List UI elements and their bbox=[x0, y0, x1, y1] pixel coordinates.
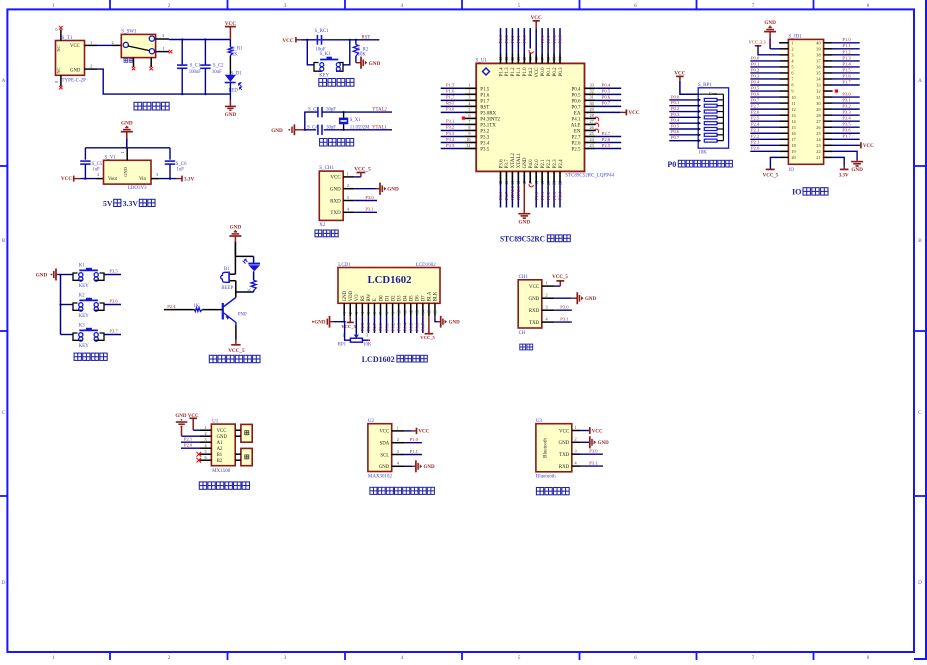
svg-text:S_CH1: S_CH1 bbox=[319, 166, 334, 171]
svg-text:P3.3: P3.3 bbox=[446, 131, 455, 136]
svg-text:VO: VO bbox=[355, 294, 360, 301]
svg-text:9: 9 bbox=[791, 89, 793, 94]
svg-text:GND: GND bbox=[424, 465, 436, 470]
svg-text:P0.2: P0.2 bbox=[751, 67, 760, 72]
svg-text:GND: GND bbox=[519, 219, 531, 225]
svg-text:YTAL2: YTAL2 bbox=[372, 107, 387, 112]
svg-text:P3.7: P3.7 bbox=[504, 191, 509, 200]
svg-text:P3.1TX: P3.1TX bbox=[480, 123, 496, 128]
svg-text:P1.7: P1.7 bbox=[480, 99, 490, 104]
svg-text:1: 1 bbox=[546, 281, 548, 286]
svg-text:13: 13 bbox=[791, 113, 795, 118]
svg-text:D4: D4 bbox=[404, 295, 409, 301]
svg-text:3: 3 bbox=[397, 449, 399, 454]
svg-text:GND: GND bbox=[314, 321, 326, 326]
svg-text:2: 2 bbox=[205, 431, 207, 436]
svg-text:S_SW1: S_SW1 bbox=[121, 30, 137, 35]
svg-text:30pF: 30pF bbox=[326, 125, 336, 130]
svg-text:EA: EA bbox=[574, 111, 581, 116]
svg-text:VCC: VCC bbox=[330, 176, 341, 181]
svg-text:15: 15 bbox=[791, 125, 795, 130]
svg-text:1: 1 bbox=[52, 3, 55, 9]
svg-text:1: 1 bbox=[343, 333, 345, 337]
svg-text:3.3V: 3.3V bbox=[839, 174, 849, 179]
svg-text:P3.1: P3.1 bbox=[446, 119, 455, 124]
svg-text:P3.4: P3.4 bbox=[480, 141, 490, 146]
svg-text:P1.2: P1.2 bbox=[510, 34, 515, 43]
svg-text:S_V1: S_V1 bbox=[105, 155, 117, 160]
svg-text:P2.4: P2.4 bbox=[558, 191, 563, 200]
svg-text:RST: RST bbox=[446, 101, 455, 106]
svg-text:P1.1: P1.1 bbox=[842, 43, 851, 48]
svg-text:BLK: BLK bbox=[434, 291, 439, 301]
svg-text:VDD: VDD bbox=[349, 290, 354, 301]
svg-text:P2.7: P2.7 bbox=[751, 104, 760, 109]
svg-text:D: D bbox=[2, 580, 6, 586]
svg-text:1K: 1K bbox=[232, 53, 238, 58]
svg-text:P2.5: P2.5 bbox=[602, 143, 611, 148]
svg-text:P2.5: P2.5 bbox=[751, 116, 760, 121]
svg-text:NC: NC bbox=[56, 67, 61, 73]
svg-text:25: 25 bbox=[816, 131, 820, 136]
svg-text:10K: 10K bbox=[363, 342, 372, 347]
svg-text:P4.1: P4.1 bbox=[571, 117, 581, 122]
svg-text:P3.0: P3.0 bbox=[842, 91, 851, 96]
svg-text:P3.0RX: P3.0RX bbox=[480, 111, 496, 116]
svg-text:P3.1: P3.1 bbox=[560, 317, 569, 322]
svg-text:1: 1 bbox=[52, 655, 55, 660]
svg-text:P2.4: P2.4 bbox=[559, 159, 564, 169]
svg-text:P2.1: P2.1 bbox=[184, 437, 193, 442]
svg-text:P1.1: P1.1 bbox=[517, 67, 522, 77]
svg-text:GND: GND bbox=[585, 297, 597, 302]
svg-text:10: 10 bbox=[396, 310, 401, 314]
svg-text:P3.2: P3.2 bbox=[842, 104, 851, 109]
svg-text:7: 7 bbox=[752, 3, 755, 9]
svg-text:5: 5 bbox=[366, 312, 371, 314]
svg-text:5: 5 bbox=[791, 65, 793, 70]
svg-text:1: 1 bbox=[791, 41, 793, 46]
svg-text:S_D1: S_D1 bbox=[231, 71, 243, 76]
svg-text:TXD: TXD bbox=[529, 321, 540, 326]
svg-text:GND: GND bbox=[70, 68, 81, 73]
svg-text:27: 27 bbox=[590, 119, 594, 124]
svg-text:ALE: ALE bbox=[571, 123, 581, 128]
svg-text:LCD1602: LCD1602 bbox=[416, 263, 437, 268]
svg-text:VCC: VCC bbox=[529, 285, 540, 290]
svg-text:P0.6: P0.6 bbox=[571, 99, 581, 104]
svg-text:P1.3: P1.3 bbox=[505, 67, 510, 77]
svg-text:LCD1602: LCD1602 bbox=[362, 354, 395, 364]
svg-text:22: 22 bbox=[816, 149, 820, 154]
svg-text:8: 8 bbox=[791, 83, 793, 88]
svg-text:3: 3 bbox=[575, 449, 577, 454]
svg-text:7: 7 bbox=[752, 655, 755, 660]
svg-text:A: A bbox=[2, 78, 6, 84]
svg-text:25: 25 bbox=[590, 131, 594, 136]
svg-text:K1: K1 bbox=[79, 263, 85, 268]
svg-text:P1.0: P1.0 bbox=[522, 34, 527, 43]
svg-text:35: 35 bbox=[816, 71, 820, 76]
svg-text:0: 0 bbox=[54, 81, 59, 83]
svg-text:BLA: BLA bbox=[428, 291, 433, 301]
svg-text:3: 3 bbox=[162, 33, 164, 38]
svg-text:P2.4: P2.4 bbox=[751, 122, 760, 127]
svg-text:5: 5 bbox=[205, 449, 207, 454]
svg-text:P1.5: P1.5 bbox=[842, 67, 851, 72]
svg-text:1: 1 bbox=[347, 171, 349, 176]
svg-text:1: 1 bbox=[205, 425, 207, 430]
svg-text:P1.1: P1.1 bbox=[516, 34, 521, 43]
svg-text:D6: D6 bbox=[416, 295, 421, 301]
svg-text:20: 20 bbox=[791, 155, 795, 160]
svg-text:KEY: KEY bbox=[319, 74, 329, 79]
svg-text:P0.3: P0.3 bbox=[671, 112, 680, 117]
svg-text:IO: IO bbox=[792, 187, 802, 196]
svg-text:GND: GND bbox=[369, 61, 381, 67]
svg-text:2: 2 bbox=[575, 437, 577, 442]
svg-text:P0.6: P0.6 bbox=[602, 95, 611, 100]
svg-text:P1.1: P1.1 bbox=[410, 449, 419, 454]
svg-text:RW: RW bbox=[367, 293, 372, 301]
svg-text:STC89C52RC: STC89C52RC bbox=[500, 234, 545, 244]
svg-text:P0.1: P0.1 bbox=[751, 61, 760, 66]
svg-text:VCC: VCC bbox=[379, 430, 389, 435]
svg-text:VCC: VCC bbox=[535, 67, 540, 78]
svg-text:3: 3 bbox=[284, 655, 287, 660]
svg-text:3.3V: 3.3V bbox=[123, 199, 139, 208]
svg-text:C: C bbox=[2, 410, 6, 416]
svg-text:2: 2 bbox=[397, 437, 399, 442]
svg-text:8: 8 bbox=[867, 3, 870, 9]
svg-text:6: 6 bbox=[634, 3, 637, 9]
svg-text:GND: GND bbox=[764, 20, 776, 26]
svg-text:Vout: Vout bbox=[108, 177, 118, 182]
svg-text:P3.6: P3.6 bbox=[498, 191, 503, 200]
svg-text:VCC_5: VCC_5 bbox=[552, 275, 568, 280]
svg-text:TXD: TXD bbox=[559, 453, 570, 458]
svg-text:VCC: VCC bbox=[418, 430, 429, 435]
svg-text:K3: K3 bbox=[79, 323, 85, 328]
svg-text:3: 3 bbox=[284, 3, 287, 9]
svg-text:28: 28 bbox=[816, 113, 820, 118]
svg-text:6: 6 bbox=[372, 312, 377, 314]
svg-text:P1.7: P1.7 bbox=[842, 79, 851, 84]
svg-text:VCC: VCC bbox=[628, 110, 639, 116]
svg-text:E: E bbox=[373, 298, 378, 301]
svg-text:P2.2: P2.2 bbox=[547, 159, 552, 169]
svg-text:6: 6 bbox=[205, 455, 207, 460]
svg-text:31: 31 bbox=[816, 95, 820, 100]
svg-text:B1: B1 bbox=[224, 267, 230, 272]
svg-text:8: 8 bbox=[468, 125, 470, 130]
svg-text:VCC: VCC bbox=[282, 38, 293, 44]
svg-text:P0.7: P0.7 bbox=[421, 322, 426, 331]
svg-text:5V: 5V bbox=[103, 199, 113, 208]
svg-text:B1: B1 bbox=[217, 453, 223, 458]
svg-text:U2: U2 bbox=[368, 419, 375, 424]
svg-text:P3.3: P3.3 bbox=[480, 135, 490, 140]
svg-text:VCC: VCC bbox=[559, 429, 570, 434]
svg-text:P3.2: P3.2 bbox=[480, 129, 490, 134]
svg-text:3: 3 bbox=[156, 172, 158, 177]
svg-text:P0.0: P0.0 bbox=[671, 94, 680, 99]
svg-text:10: 10 bbox=[466, 137, 470, 142]
svg-text:VCC_5: VCC_5 bbox=[341, 324, 356, 329]
svg-text:9: 9 bbox=[468, 131, 470, 136]
svg-text:EN: EN bbox=[574, 129, 581, 134]
svg-text:18: 18 bbox=[791, 143, 795, 148]
svg-text:GND: GND bbox=[217, 435, 228, 440]
svg-text:11: 11 bbox=[791, 101, 795, 106]
svg-text:P2.3: P2.3 bbox=[552, 191, 557, 200]
svg-text:P0.4: P0.4 bbox=[602, 83, 611, 88]
svg-text:P1.2: P1.2 bbox=[511, 67, 516, 77]
svg-text:VCC: VCC bbox=[592, 429, 603, 434]
svg-text:3: 3 bbox=[354, 312, 359, 314]
svg-text:RXD: RXD bbox=[529, 309, 540, 314]
svg-text:D3: D3 bbox=[397, 295, 402, 301]
svg-text:3.3V: 3.3V bbox=[184, 176, 194, 182]
svg-text:P0.5: P0.5 bbox=[408, 322, 413, 331]
svg-text:P0.3: P0.3 bbox=[396, 322, 401, 331]
svg-text:S_K1: S_K1 bbox=[320, 52, 332, 57]
svg-text:100uF: 100uF bbox=[189, 70, 202, 75]
svg-text:P2.0: P2.0 bbox=[534, 191, 539, 200]
svg-text:P0.2: P0.2 bbox=[390, 323, 395, 331]
svg-text:GND: GND bbox=[230, 225, 242, 231]
svg-text:P2.7: P2.7 bbox=[372, 322, 377, 331]
svg-text:K2: K2 bbox=[79, 293, 85, 298]
svg-text:P3.3: P3.3 bbox=[842, 110, 851, 115]
svg-text:1: 1 bbox=[397, 425, 399, 430]
svg-text:5: 5 bbox=[518, 3, 521, 9]
svg-text:P2.6: P2.6 bbox=[366, 322, 371, 331]
svg-text:10K: 10K bbox=[698, 151, 707, 156]
svg-text:P0.6: P0.6 bbox=[415, 322, 420, 331]
svg-text:2: 2 bbox=[90, 64, 92, 69]
svg-text:S_U1: S_U1 bbox=[476, 59, 488, 64]
svg-text:IO: IO bbox=[789, 168, 795, 173]
svg-text:P2.0: P2.0 bbox=[751, 146, 760, 151]
svg-text:GND: GND bbox=[36, 272, 48, 278]
svg-text:P2.1: P2.1 bbox=[751, 140, 760, 145]
svg-text:2: 2 bbox=[468, 89, 470, 94]
svg-text:LDO3V3: LDO3V3 bbox=[128, 186, 147, 191]
svg-text:P2.2: P2.2 bbox=[546, 191, 551, 200]
svg-text:12: 12 bbox=[408, 310, 413, 314]
svg-text:U1: U1 bbox=[212, 419, 219, 424]
svg-text:B: B bbox=[2, 238, 6, 244]
svg-text:YTAL1: YTAL1 bbox=[372, 125, 387, 130]
svg-text:S_JD1: S_JD1 bbox=[788, 35, 802, 40]
svg-text:P1.5: P1.5 bbox=[446, 83, 455, 88]
svg-text:1: 1 bbox=[342, 312, 347, 314]
svg-text:P0.3: P0.3 bbox=[751, 73, 760, 78]
svg-text:NC: NC bbox=[56, 45, 61, 51]
svg-text:RS: RS bbox=[361, 295, 366, 301]
svg-text:39: 39 bbox=[816, 47, 820, 52]
svg-text:P2.4: P2.4 bbox=[167, 304, 176, 309]
svg-text:2: 2 bbox=[168, 3, 171, 9]
svg-text:XTAL1: XTAL1 bbox=[517, 152, 522, 168]
svg-text:RST: RST bbox=[480, 105, 489, 110]
svg-text:GND: GND bbox=[225, 112, 237, 118]
svg-text:P0.0: P0.0 bbox=[540, 34, 545, 43]
svg-text:19: 19 bbox=[791, 149, 795, 154]
svg-text:SDA: SDA bbox=[380, 442, 390, 447]
svg-text:P3.1: P3.1 bbox=[589, 460, 598, 465]
svg-text:S_RP1: S_RP1 bbox=[698, 83, 712, 88]
svg-text:P3.0: P3.0 bbox=[365, 195, 374, 200]
svg-text:LCD1: LCD1 bbox=[338, 263, 351, 268]
svg-text:11.0592M: 11.0592M bbox=[350, 125, 370, 130]
svg-text:GND: GND bbox=[449, 321, 461, 326]
svg-text:P1.6: P1.6 bbox=[446, 89, 455, 94]
svg-text:RXD: RXD bbox=[559, 465, 570, 470]
svg-text:9: 9 bbox=[390, 312, 395, 314]
svg-text:10uF: 10uF bbox=[212, 70, 222, 75]
svg-text:MX1508: MX1508 bbox=[212, 469, 231, 474]
svg-text:P0.4: P0.4 bbox=[402, 322, 407, 331]
svg-text:P0.7: P0.7 bbox=[602, 101, 611, 106]
svg-text:P1.0: P1.0 bbox=[842, 37, 851, 42]
svg-text:GND: GND bbox=[387, 187, 399, 193]
svg-text:32: 32 bbox=[590, 89, 594, 94]
svg-text:D1: D1 bbox=[385, 295, 390, 301]
svg-text:29: 29 bbox=[816, 107, 820, 112]
svg-text:P2.6: P2.6 bbox=[571, 141, 581, 146]
svg-text:P3.7: P3.7 bbox=[842, 134, 851, 139]
svg-text:GND: GND bbox=[558, 441, 569, 446]
svg-text:P2.0: P2.0 bbox=[535, 159, 540, 169]
svg-text:15: 15 bbox=[427, 310, 432, 314]
svg-text:P0.1: P0.1 bbox=[384, 323, 389, 331]
svg-text:S_C1: S_C1 bbox=[190, 64, 201, 69]
svg-text:P4.0: P4.0 bbox=[529, 159, 534, 169]
svg-text:RST: RST bbox=[362, 36, 371, 41]
svg-text:P2.0: P2.0 bbox=[184, 443, 193, 448]
svg-text:10K: 10K bbox=[358, 53, 367, 58]
svg-text:1uF: 1uF bbox=[177, 168, 185, 173]
svg-text:P1.3: P1.3 bbox=[504, 34, 509, 43]
svg-text:S_X1: S_X1 bbox=[350, 118, 362, 123]
svg-text:P0.5: P0.5 bbox=[671, 123, 680, 128]
svg-text:32: 32 bbox=[816, 89, 820, 94]
svg-text:VCC_5: VCC_5 bbox=[354, 167, 371, 173]
svg-text:P3.2: P3.2 bbox=[446, 125, 455, 130]
svg-text:P1.4: P1.4 bbox=[498, 34, 503, 43]
svg-text:P0.0: P0.0 bbox=[378, 322, 383, 331]
svg-text:RP1: RP1 bbox=[338, 342, 347, 347]
svg-text:3: 3 bbox=[347, 195, 349, 200]
svg-text:3: 3 bbox=[366, 333, 368, 337]
svg-text:P1.6: P1.6 bbox=[480, 93, 490, 98]
svg-text:P1.4: P1.4 bbox=[499, 67, 504, 77]
svg-text:STC89C52RC_LQFP44: STC89C52RC_LQFP44 bbox=[565, 174, 614, 179]
svg-text:P4.2: P4.2 bbox=[529, 67, 534, 77]
svg-text:P0.4: P0.4 bbox=[671, 118, 680, 123]
svg-text:P3.4: P3.4 bbox=[842, 116, 851, 121]
svg-text:A: A bbox=[918, 78, 922, 84]
svg-text:1: 1 bbox=[90, 40, 92, 45]
svg-text:P1.3: P1.3 bbox=[842, 55, 851, 60]
svg-text:33: 33 bbox=[590, 83, 594, 88]
svg-text:LCD1602: LCD1602 bbox=[368, 275, 412, 286]
svg-text:P2.1: P2.1 bbox=[540, 191, 545, 200]
svg-text:P2.7: P2.7 bbox=[602, 131, 611, 136]
svg-text:XTAL2: XTAL2 bbox=[510, 185, 515, 200]
svg-text:30: 30 bbox=[590, 101, 594, 106]
svg-text:P1.4: P1.4 bbox=[842, 61, 851, 66]
svg-text:30: 30 bbox=[816, 101, 820, 106]
svg-text:GND: GND bbox=[271, 128, 283, 134]
svg-text:RXD: RXD bbox=[330, 199, 341, 204]
svg-text:38: 38 bbox=[816, 53, 820, 58]
svg-text:P2.2: P2.2 bbox=[751, 134, 760, 139]
svg-text:P2.7: P2.7 bbox=[571, 135, 581, 140]
svg-text:VCC_5: VCC_5 bbox=[763, 174, 779, 179]
svg-text:3: 3 bbox=[468, 95, 470, 100]
svg-text:29: 29 bbox=[590, 107, 594, 112]
svg-text:2: 2 bbox=[546, 293, 548, 298]
svg-text:KEY: KEY bbox=[79, 344, 89, 349]
svg-text:A1: A1 bbox=[217, 441, 223, 446]
svg-text:7: 7 bbox=[378, 312, 383, 314]
svg-text:P1.5: P1.5 bbox=[480, 87, 490, 92]
svg-text:P3.5: P3.5 bbox=[842, 122, 851, 127]
svg-text:P0.1: P0.1 bbox=[671, 100, 680, 105]
svg-text:GND: GND bbox=[343, 290, 348, 301]
svg-text:P0.0: P0.0 bbox=[751, 55, 760, 60]
svg-text:6: 6 bbox=[468, 113, 470, 118]
svg-text:MAX30102: MAX30102 bbox=[368, 475, 393, 480]
svg-text:VCC: VCC bbox=[61, 176, 72, 182]
svg-text:VCC_5: VCC_5 bbox=[420, 335, 435, 340]
svg-text:D: D bbox=[918, 580, 922, 586]
svg-text:14: 14 bbox=[421, 310, 426, 314]
svg-text:P4.3INT2: P4.3INT2 bbox=[480, 117, 500, 122]
svg-text:S_C2: S_C2 bbox=[213, 64, 224, 69]
svg-text:P0.3: P0.3 bbox=[559, 67, 564, 77]
svg-text:P3.6: P3.6 bbox=[842, 128, 851, 133]
svg-text:33: 33 bbox=[816, 83, 820, 88]
svg-text:XTAL2: XTAL2 bbox=[511, 152, 516, 168]
svg-text:11: 11 bbox=[466, 143, 470, 148]
svg-text:23: 23 bbox=[816, 143, 820, 148]
svg-text:P3.7: P3.7 bbox=[505, 159, 510, 169]
svg-text:P1.0: P1.0 bbox=[523, 67, 528, 77]
svg-text:P2.3: P2.3 bbox=[751, 128, 760, 133]
svg-text:2: 2 bbox=[347, 183, 349, 188]
svg-text:P2.5: P2.5 bbox=[571, 148, 581, 153]
svg-text:2: 2 bbox=[791, 47, 793, 52]
svg-text:P0.6: P0.6 bbox=[751, 91, 760, 96]
svg-text:P3.7: P3.7 bbox=[109, 328, 118, 333]
svg-text:P0.2: P0.2 bbox=[553, 67, 558, 77]
svg-text:1K: 1K bbox=[194, 304, 200, 309]
svg-text:P3.5: P3.5 bbox=[109, 268, 118, 273]
svg-text:P1.0: P1.0 bbox=[410, 437, 419, 442]
svg-text:S_RC1: S_RC1 bbox=[315, 29, 329, 34]
svg-text:GND: GND bbox=[123, 166, 128, 176]
svg-text:2: 2 bbox=[112, 40, 114, 45]
svg-text:16: 16 bbox=[433, 310, 438, 314]
svg-text:S_R1: S_R1 bbox=[232, 47, 243, 52]
svg-text:6: 6 bbox=[634, 655, 637, 660]
svg-text:S_C3: S_C3 bbox=[308, 108, 319, 113]
svg-text:0: 0 bbox=[54, 28, 59, 30]
